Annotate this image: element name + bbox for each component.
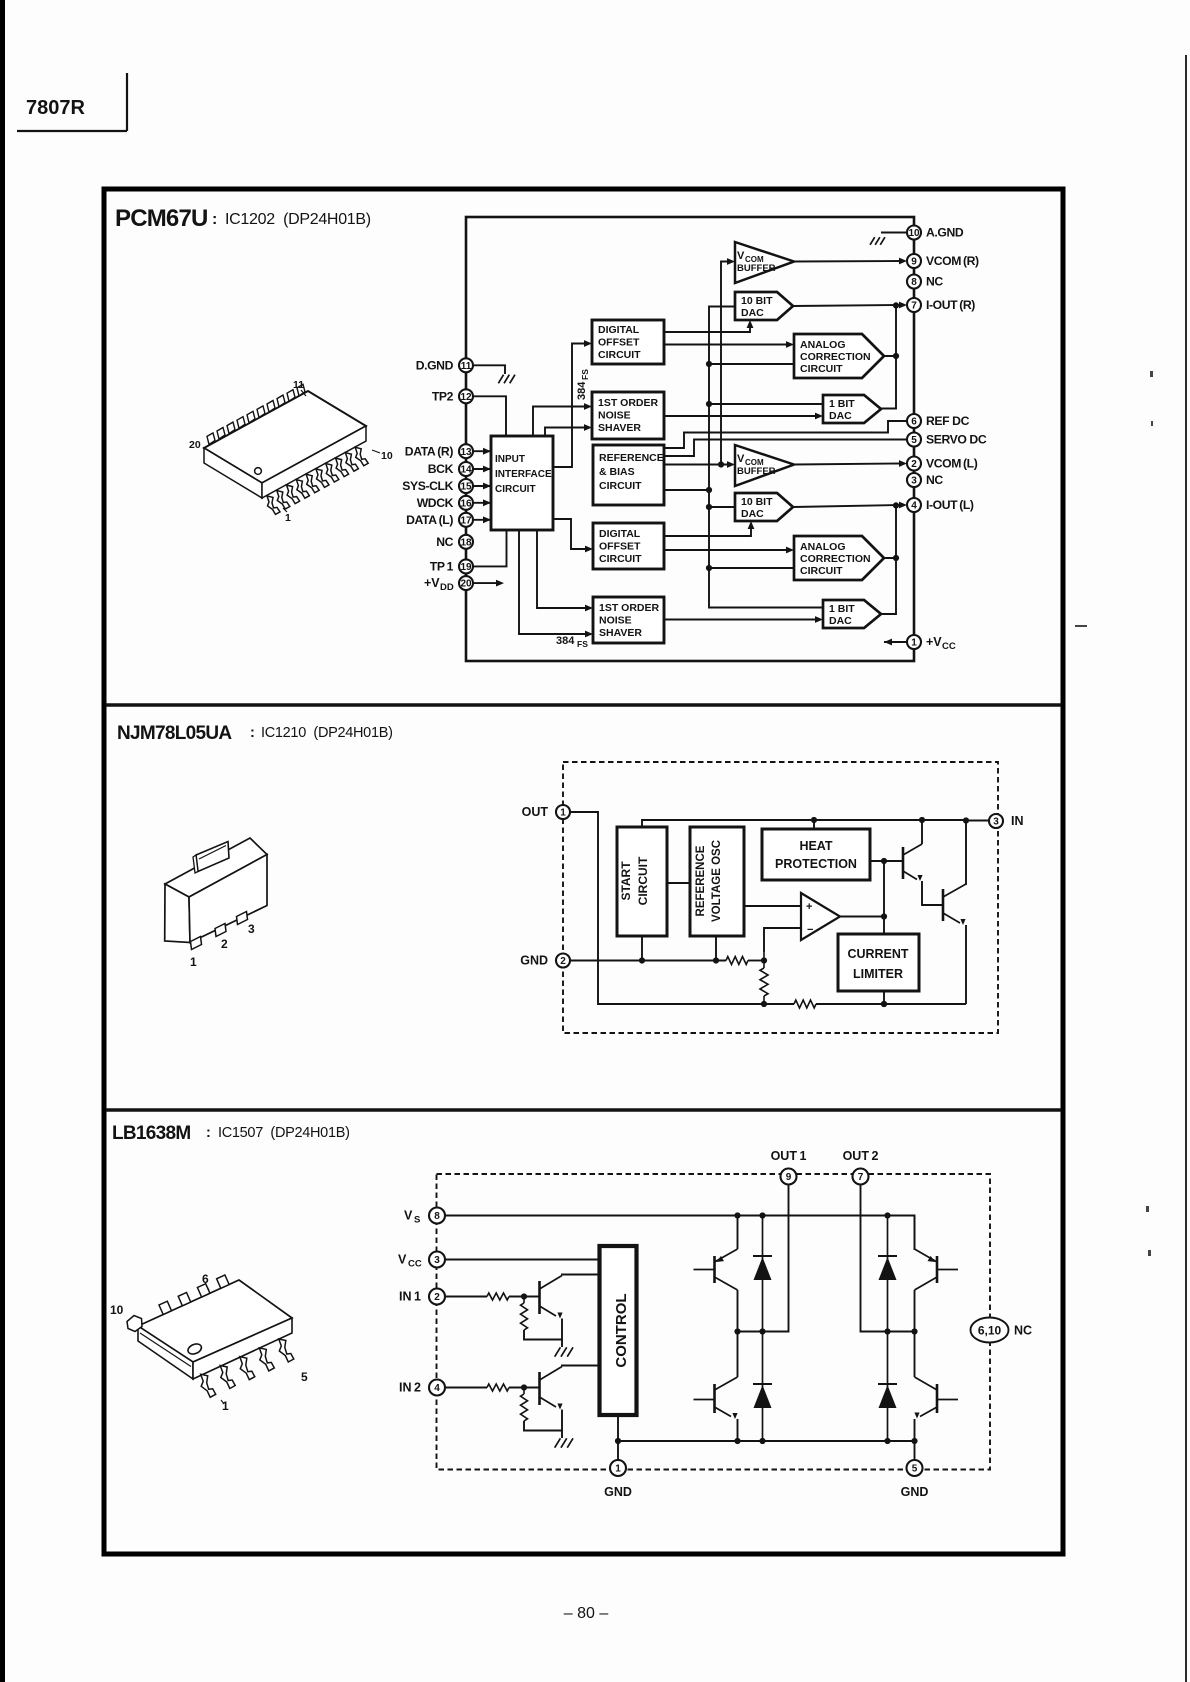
node vs d1 [759, 1212, 765, 1218]
page right scan edge line [1185, 55, 1187, 1682]
wire pin12 tp2 to input interface top [473, 396, 506, 436]
pin 1 circle [907, 635, 921, 649]
svg-text:1ST ORDER: 1ST ORDER [598, 397, 659, 409]
NC pins ellipse 6-10 [971, 1318, 1009, 1343]
pin 1 label +VCC [926, 635, 956, 652]
resistor R-in2 [487, 1384, 509, 1391]
svg-text:DIGITAL: DIGITAL [599, 528, 641, 540]
svg-text:SYS-CLK: SYS-CLK [402, 479, 453, 493]
svg-text:GND: GND [604, 1485, 632, 1499]
svg-text:GND: GND [901, 1485, 929, 1499]
wire start to reference link [667, 882, 690, 884]
wire gnd bottom rail [618, 1441, 915, 1460]
svg-text:10: 10 [110, 1303, 124, 1317]
svg-text:IN: IN [1011, 814, 1024, 828]
node rail to 10bit dac L [709, 506, 735, 508]
wire q2 emitter down [561, 1410, 563, 1431]
svg-text:DAC: DAC [829, 615, 852, 627]
svg-text:NC: NC [436, 535, 453, 549]
pin 3 VCC circle [429, 1252, 445, 1268]
node top rail heat [811, 817, 817, 823]
section divider 2 [106, 1108, 1061, 1111]
svg-text:IC1202 (DP24H01B): IC1202 (DP24H01B) [225, 211, 371, 228]
pin 5 GND circle [907, 1460, 923, 1476]
analog correction circuit L pentagon [794, 536, 884, 580]
node top rail q2 [963, 817, 969, 823]
wire 10bit dac L to pin4 [793, 505, 901, 507]
svg-text:CC: CC [942, 641, 956, 652]
svg-text::: : [250, 725, 255, 741]
svg-text:7: 7 [858, 1172, 864, 1183]
svg-text:DATA (R): DATA (R) [405, 444, 454, 458]
svg-text:CC: CC [408, 1259, 422, 1270]
pin 4 circle [907, 498, 921, 512]
block reference voltage osc [690, 827, 744, 936]
svg-text:NOISE: NOISE [598, 410, 631, 422]
dac 10bit R pentagon [735, 292, 793, 320]
dac 10bit L pentagon [735, 493, 793, 521]
pin 1 GND circle [610, 1460, 626, 1476]
section2 title NJM78L05UA [117, 723, 393, 744]
T6 arrow [914, 1413, 919, 1419]
dac 1bit L pentagon [823, 600, 881, 628]
svg-text::: : [206, 1125, 211, 1141]
node mid1 d [759, 1328, 765, 1334]
wire ref to pin5 servo dc [664, 440, 907, 457]
pin 6 circle [907, 414, 921, 428]
dac 1bit R pentagon [823, 395, 881, 423]
svg-text:REF DC: REF DC [926, 414, 970, 428]
svg-text:CONTROL: CONTROL [613, 1293, 630, 1367]
wire top rail [642, 820, 966, 885]
ground symbol dgnd [498, 375, 515, 384]
wire control to gnd1 [617, 1415, 619, 1460]
wire vs rail [445, 1216, 915, 1251]
block digital offset circuit L [593, 523, 664, 569]
op-amp U1 PCM67U IC boundary box [466, 217, 914, 661]
wire q2 emitter down [965, 925, 967, 1004]
wire pin14 bck [473, 468, 491, 470]
svg-text:DD: DD [440, 582, 454, 593]
svg-text:5: 5 [912, 1464, 918, 1475]
svg-text:2: 2 [911, 459, 917, 470]
T5 arrow [928, 1256, 937, 1265]
wire digital offset L to 10bit dac L [664, 527, 751, 536]
svg-text:2: 2 [560, 956, 566, 967]
wire vcc to control [445, 1259, 600, 1261]
pin 3 IN circle [989, 814, 1003, 828]
block 1st order noise shaver R [592, 392, 664, 439]
svg-text:& BIAS: & BIAS [599, 466, 635, 478]
section3 title LB1638M [112, 1123, 350, 1144]
wire current limiter to bottom rail [883, 991, 885, 1004]
svg-text:CIRCUIT: CIRCUIT [636, 856, 650, 905]
pin 3 circle [907, 473, 921, 487]
IC1202 package drawing [204, 384, 368, 514]
resistor R1 gnd rail [726, 957, 748, 965]
svg-text:IC1210 (DP24H01B): IC1210 (DP24H01B) [261, 725, 393, 741]
pin 1 OUT circle [556, 805, 570, 819]
svg-text:SERVO DC: SERVO DC [926, 433, 987, 447]
svg-text:12: 12 [460, 392, 472, 403]
svg-text:DAC: DAC [741, 508, 764, 520]
svg-text:10 BIT: 10 BIT [741, 496, 773, 508]
wire q2 collector to control [562, 1366, 600, 1367]
svg-text:5: 5 [301, 1370, 308, 1384]
transistor Q2 input npn [540, 1367, 563, 1410]
wire pin15 sys-clk [473, 485, 491, 487]
svg-text:V: V [737, 453, 745, 465]
svg-text:IN 2: IN 2 [399, 1381, 421, 1395]
svg-text:OUT 1: OUT 1 [771, 1149, 807, 1163]
svg-text:9: 9 [911, 257, 917, 268]
wire in1 to q1 base [509, 1296, 540, 1298]
svg-text:3: 3 [911, 476, 917, 487]
node vs d3 [884, 1212, 890, 1218]
section divider 1 [106, 703, 1061, 706]
pin 2 circle [907, 457, 921, 471]
pin 3 label VCC [398, 1253, 422, 1270]
svg-text:TP2: TP2 [432, 390, 454, 404]
svg-text:NC: NC [1014, 1324, 1032, 1338]
svg-text:20: 20 [189, 439, 201, 451]
svg-text:17: 17 [460, 515, 472, 526]
pin 16 circle [459, 496, 473, 510]
svg-text:1 BIT: 1 BIT [829, 603, 855, 615]
pin 13 circle [459, 444, 473, 458]
svg-text:FS: FS [577, 639, 588, 649]
svg-text:VCOM (L): VCOM (L) [926, 457, 978, 471]
pin 20 label +VDD [424, 576, 454, 593]
transistor T4 npn lower-left [694, 1377, 738, 1419]
wire current limiter riser [883, 861, 885, 934]
regulator dashed boundary [563, 762, 998, 1033]
IC1507 package drawing [127, 1275, 294, 1397]
ground symbol q2 [555, 1438, 573, 1447]
node rail t4 [734, 1438, 740, 1444]
pin 8 label VS [404, 1209, 420, 1226]
svg-text:8: 8 [911, 277, 917, 288]
wire reference rail vertical [664, 307, 735, 491]
svg-text:10: 10 [908, 228, 920, 239]
svg-text:ANALOG: ANALOG [800, 339, 846, 351]
wire in2 [445, 1387, 487, 1389]
pin 10 circle [907, 226, 921, 240]
label 384fs top rotated [576, 369, 590, 400]
node top rail q1 [919, 817, 925, 823]
svg-text:4: 4 [434, 1383, 440, 1394]
svg-text:10 BIT: 10 BIT [741, 295, 773, 307]
svg-text:D.GND: D.GND [416, 359, 454, 373]
svg-text:I-OUT (L): I-OUT (L) [926, 498, 974, 512]
pin 9 circle [907, 254, 921, 268]
pin 7 OUT2 circle [853, 1169, 869, 1185]
svg-text:NC: NC [926, 275, 943, 289]
wire ref to pin6 ref dc [664, 421, 907, 448]
svg-text:LB1638M: LB1638M [112, 1123, 191, 1144]
svg-text:PROTECTION: PROTECTION [775, 857, 857, 871]
wire pin16 wdck [473, 502, 491, 504]
svg-text:– 80 –: – 80 – [564, 1605, 609, 1622]
svg-text:1: 1 [560, 808, 566, 819]
svg-text:REFERENCE: REFERENCE [695, 845, 707, 916]
svg-text:1 BIT: 1 BIT [829, 398, 855, 410]
wire correction bus R [884, 305, 896, 356]
svg-text:+V: +V [424, 576, 440, 590]
svg-text:1: 1 [285, 512, 291, 524]
svg-text:CORRECTION: CORRECTION [800, 553, 871, 565]
svg-text:V: V [404, 1209, 413, 1223]
svg-text:9: 9 [786, 1172, 792, 1183]
svg-text:INTERFACE: INTERFACE [495, 469, 552, 480]
svg-text:TP 1: TP 1 [430, 560, 454, 574]
svg-text:11: 11 [293, 379, 304, 391]
wire pin19 tp1 to input interface bottom [473, 530, 507, 566]
pin 2 GND circle [556, 954, 570, 968]
svg-text:1: 1 [222, 1399, 229, 1413]
wire pin10 agnd [881, 232, 907, 234]
op-amp error amplifier [801, 893, 840, 940]
pin 7 circle [907, 298, 921, 312]
svg-text:1: 1 [615, 1464, 621, 1475]
wire ref to vcom buffer L [664, 464, 729, 466]
node rail to analog correction R [709, 363, 794, 365]
block 1st order noise shaver L [593, 597, 664, 643]
block input interface circuit [491, 436, 553, 530]
section1 title PCM67U [115, 205, 371, 232]
ground symbol agnd [870, 237, 885, 245]
node rail to analog correction L [709, 567, 794, 569]
svg-text:3: 3 [248, 922, 255, 936]
node control gnd rail [615, 1438, 621, 1444]
resistor R3 bottom rail [794, 1000, 816, 1008]
svg-text:VOLTAGE OSC: VOLTAGE OSC [711, 840, 723, 922]
svg-text:NC: NC [926, 473, 943, 487]
vcom buffer R triangle [735, 242, 794, 283]
wire q1 collector to control [562, 1275, 600, 1276]
svg-text:OFFSET: OFFSET [598, 337, 640, 349]
wire bottom rail to q2 [816, 1003, 966, 1005]
label 384fs bottom [556, 635, 588, 649]
resistor R-in1 [487, 1293, 509, 1300]
svg-text:SHAVER: SHAVER [598, 422, 641, 434]
transistor Q2 npn [943, 884, 966, 925]
svg-text:3: 3 [434, 1255, 440, 1266]
svg-text:WDCK: WDCK [417, 496, 454, 510]
svg-text:5: 5 [911, 435, 917, 446]
svg-text:CIRCUIT: CIRCUIT [800, 363, 843, 375]
svg-text:−: − [807, 924, 813, 936]
wire bottom rail right [764, 1003, 794, 1005]
svg-text:8: 8 [434, 1211, 440, 1222]
wire q1 emitter to q2 base [922, 881, 943, 905]
pin 15 circle [459, 479, 473, 493]
svg-text:CIRCUIT: CIRCUIT [598, 349, 641, 361]
wire digital offset R to analog correction R [664, 344, 788, 346]
wire out2 to bridge mid [861, 1185, 915, 1332]
wire pin13 data-r [473, 450, 491, 452]
svg-text:16: 16 [460, 498, 472, 509]
pin 2 IN1 circle [429, 1289, 445, 1305]
pin 8 VS circle [429, 1208, 445, 1224]
pin 12 circle [459, 389, 473, 403]
svg-text:START: START [619, 861, 633, 901]
svg-text:CIRCUIT: CIRCUIT [599, 480, 642, 492]
block digital offset circuit R [592, 320, 664, 364]
svg-text:14: 14 [460, 465, 472, 476]
svg-text:1: 1 [190, 955, 197, 969]
svg-text:2: 2 [434, 1292, 440, 1303]
scan speckles [1075, 371, 1153, 1256]
pin 5 circle [907, 433, 921, 447]
IC1210 package drawing [165, 838, 267, 950]
wire digital offset R to 10bit dac R [664, 326, 750, 332]
node rail d2 [759, 1438, 765, 1444]
pin 11 circle [459, 358, 473, 372]
diode D3 [887, 1216, 889, 1332]
transistor Q1 input npn [540, 1276, 563, 1319]
svg-text:DAC: DAC [741, 307, 764, 319]
wire opamp minus feedback [764, 928, 801, 952]
svg-text:10: 10 [381, 450, 393, 462]
T6 wires [914, 1332, 916, 1378]
wire gnd rail [570, 960, 726, 962]
resistor R-pd1 [523, 1297, 525, 1304]
7807R corner label box [17, 73, 127, 131]
svg-text:ANALOG: ANALOG [800, 541, 846, 553]
driver dashed boundary [437, 1174, 991, 1470]
transistor Q1 npn [903, 820, 923, 881]
svg-text:PCM67U: PCM67U [115, 205, 208, 232]
wire input interface top to noise shaver R input a [533, 407, 586, 437]
svg-text:6,10: 6,10 [978, 1324, 1002, 1338]
page left black margin bar [0, 0, 5, 1682]
block start circuit [617, 827, 667, 936]
wire input interface to noise shaver L input b [519, 530, 587, 634]
svg-text:CIRCUIT: CIRCUIT [599, 553, 642, 565]
svg-text:BCK: BCK [428, 462, 454, 476]
svg-text:NOISE: NOISE [599, 615, 632, 627]
diode D1 [762, 1216, 764, 1332]
svg-text:VCOM (R): VCOM (R) [926, 254, 979, 268]
T3 emitter wire [715, 1277, 738, 1290]
pin 17 circle [459, 513, 473, 527]
ground symbol q1 [555, 1347, 573, 1356]
wire noise shaver R to 1bit dac R [664, 415, 817, 417]
svg-text:OUT 2: OUT 2 [843, 1149, 879, 1163]
wire vcom riser to buffer R [721, 262, 729, 465]
main outer frame [104, 189, 1063, 1554]
pin 20 circle [459, 576, 473, 590]
svg-text:HEAT: HEAT [799, 839, 832, 853]
svg-text:V: V [398, 1253, 407, 1267]
svg-text:CIRCUIT: CIRCUIT [495, 484, 536, 495]
wire buffer R to pin9 [794, 260, 901, 263]
diode D4 [887, 1332, 889, 1442]
svg-text:CIRCUIT: CIRCUIT [800, 565, 843, 577]
pin 8 circle [907, 275, 921, 289]
analog correction circuit R pentagon [794, 334, 884, 378]
wire out pin to bottom rail [570, 812, 764, 1004]
svg-text:11: 11 [461, 361, 472, 372]
wire buffer L to pin2 [794, 464, 901, 465]
svg-text:BUFFER: BUFFER [737, 466, 776, 477]
wire pin11 dgnd [473, 365, 505, 374]
svg-text:IC1507 (DP24H01B): IC1507 (DP24H01B) [218, 1125, 350, 1141]
wire reference to opamp plus [744, 905, 801, 907]
wire input interface top to noise shaver R input b [545, 428, 586, 437]
T5 wires [914, 1216, 916, 1250]
block heat protection [762, 829, 870, 880]
T4 wires [737, 1332, 739, 1378]
wire opamp output [840, 916, 884, 918]
resistor R2 vertical [763, 952, 765, 968]
resistor R-pd2 [523, 1388, 525, 1395]
node start circuit gnd [641, 936, 643, 961]
vcom buffer L triangle [735, 445, 794, 486]
node mid1 t [734, 1328, 740, 1334]
svg-text:SHAVER: SHAVER [599, 627, 642, 639]
svg-text:I-OUT (R): I-OUT (R) [926, 298, 975, 312]
wire q1 emitter down [561, 1319, 563, 1340]
node mid2 t [911, 1328, 917, 1334]
svg-text:7807R: 7807R [26, 97, 85, 119]
svg-text:6: 6 [202, 1272, 209, 1286]
svg-text:DAC: DAC [829, 410, 852, 422]
pin 4 IN2 circle [429, 1380, 445, 1396]
svg-text:IN 1: IN 1 [399, 1290, 421, 1304]
svg-text::: : [212, 211, 217, 228]
node rail d4 [884, 1438, 890, 1444]
wire pin17 data-l [473, 519, 491, 521]
pin 14 circle [459, 462, 473, 476]
svg-text:20: 20 [460, 579, 472, 590]
svg-text:GND: GND [520, 954, 548, 968]
svg-text:OFFSET: OFFSET [599, 541, 641, 553]
svg-text:6: 6 [911, 417, 917, 428]
svg-text:NJM78L05UA: NJM78L05UA [117, 723, 232, 744]
svg-text:15: 15 [460, 482, 472, 493]
svg-text:FS: FS [580, 369, 590, 380]
svg-text:DIGITAL: DIGITAL [598, 324, 640, 336]
node reference gnd [715, 936, 717, 961]
wire digital offset L to analog correction L [664, 549, 788, 551]
svg-text:CURRENT: CURRENT [847, 947, 908, 961]
svg-text:DATA (L): DATA (L) [406, 513, 453, 527]
svg-text:384: 384 [556, 635, 575, 647]
svg-text:3: 3 [993, 817, 999, 828]
block control [600, 1246, 637, 1415]
block reference and bias circuit [593, 445, 664, 505]
wire out1 to bridge mid [738, 1185, 789, 1332]
wire input interface to digital offset L [553, 519, 587, 549]
transistor T6 npn lower-right [915, 1377, 959, 1417]
svg-text:REFERENCE: REFERENCE [599, 452, 664, 464]
svg-text:19: 19 [460, 562, 472, 573]
svg-text:INPUT: INPUT [495, 454, 525, 465]
wire noise shaver L to 1bit dac L [664, 619, 817, 621]
svg-text:7: 7 [911, 301, 917, 312]
svg-text:S: S [414, 1215, 420, 1226]
svg-text:+V: +V [926, 635, 942, 649]
svg-text:18: 18 [460, 537, 472, 548]
svg-text:CORRECTION: CORRECTION [800, 351, 871, 363]
wire heat protection to q1 base [870, 860, 903, 862]
transistor T5 pnp upper-right [915, 1249, 959, 1290]
svg-text:OUT: OUT [522, 805, 549, 819]
svg-text:V: V [737, 250, 745, 262]
node mid2 d [884, 1328, 890, 1334]
